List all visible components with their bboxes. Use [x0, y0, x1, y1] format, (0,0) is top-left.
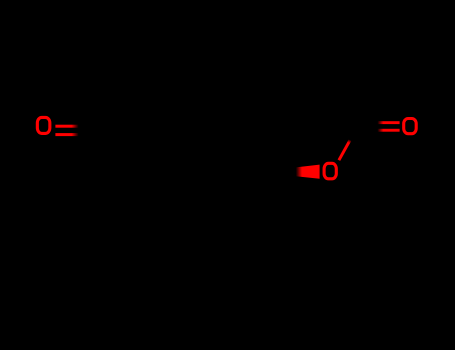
double bond C7=O3 lower line (red half, fades to black carbon half)	[378, 129, 400, 132]
double bond O1=C1 upper line (red half, fades to black carbon half)	[55, 125, 78, 128]
atom O2 (ester oxygen)	[324, 163, 336, 179]
wedge bond C4-O2 (stereo wedge, red half fades toward carbon)	[296, 165, 320, 179]
single bond O2-C7 (diagonal, red half fades toward carbon)	[339, 140, 350, 160]
double bond C7=O3 upper line (red half, fades to black carbon half)	[378, 121, 400, 124]
atom O1 (aldehyde oxygen, left)	[37, 117, 50, 133]
double bond O1=C1 lower line (red half, fades to black carbon half)	[55, 133, 78, 136]
atom O3 (carbonyl oxygen of acetate, right)	[404, 119, 417, 134]
